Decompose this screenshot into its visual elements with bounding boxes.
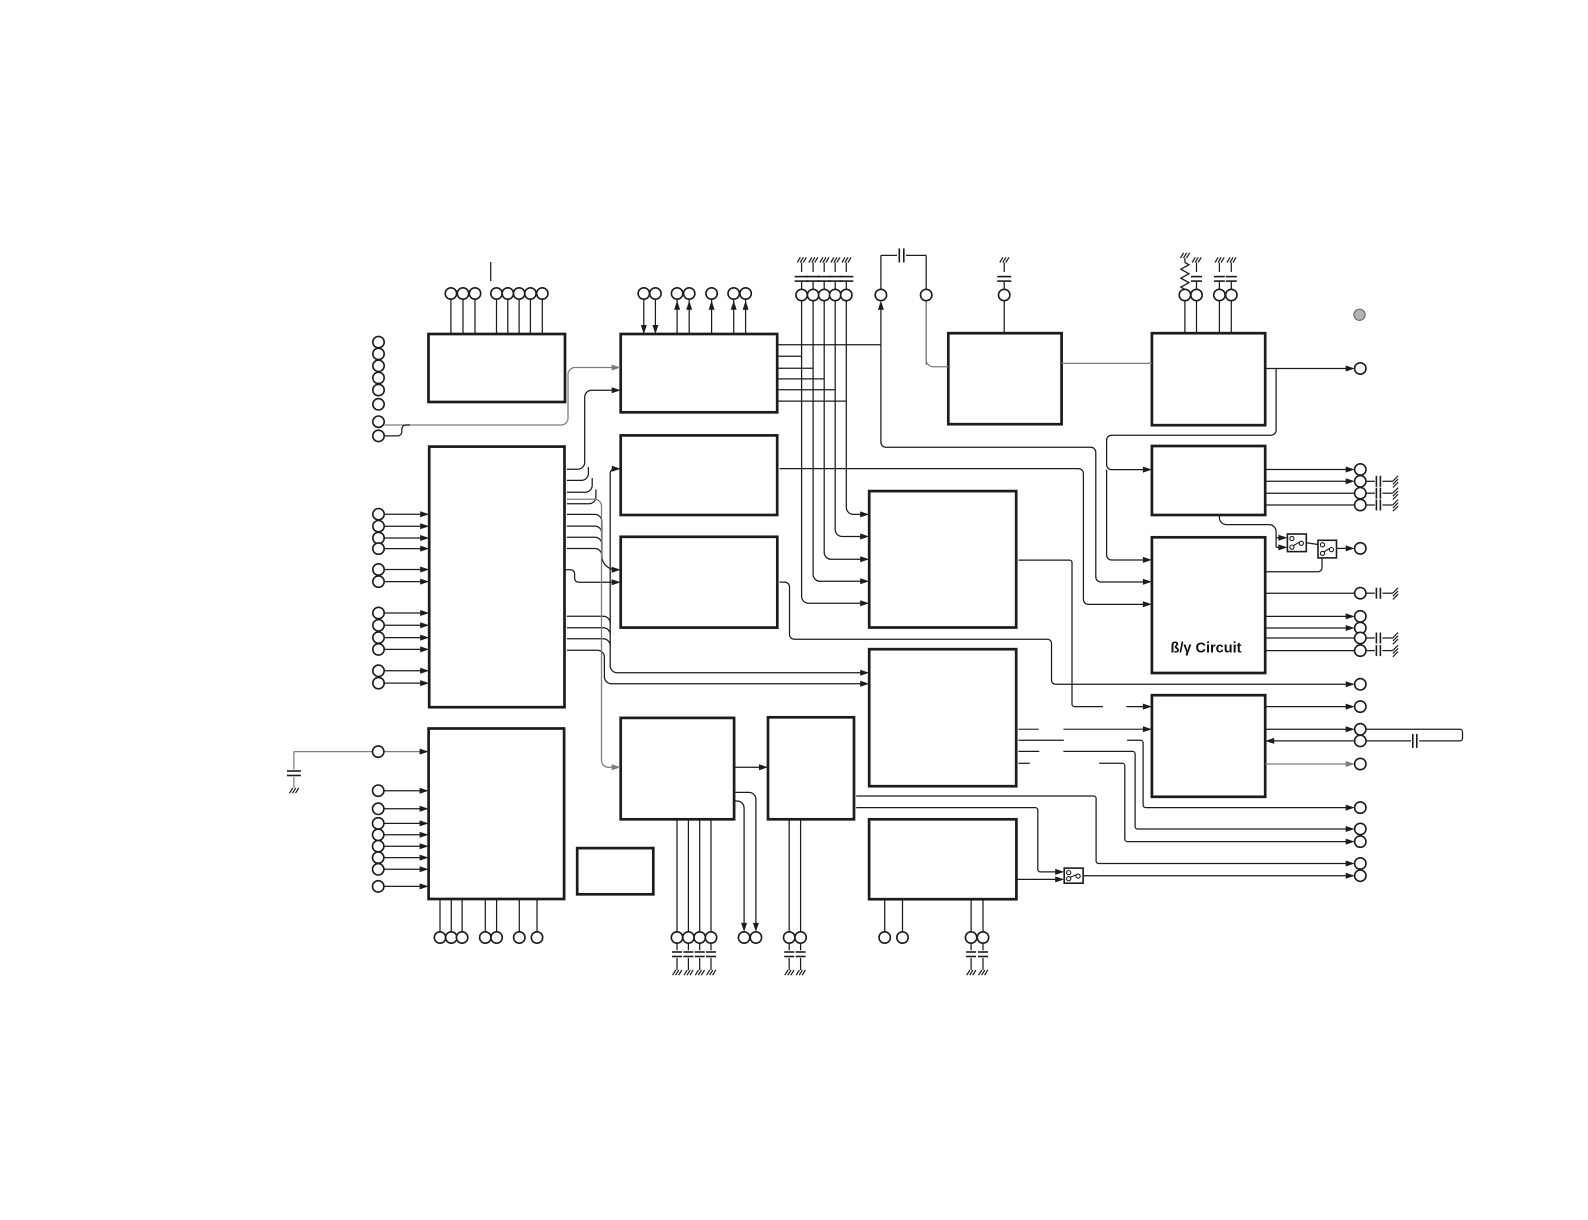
svg-text:ß/γ Circuit: ß/γ Circuit — [1171, 641, 1242, 657]
